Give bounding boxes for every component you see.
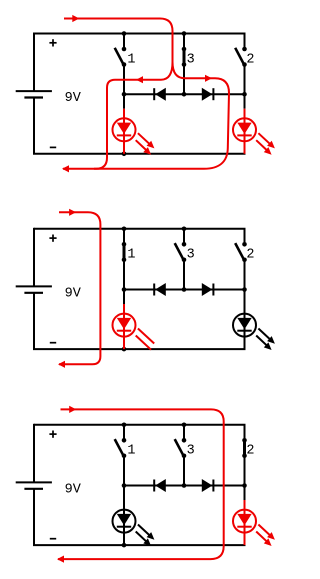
svg-text:1: 1 <box>127 444 135 459</box>
switch 2 top contact dot <box>242 47 247 52</box>
red current path: c1 right branch through D2 to right LED <box>94 62 229 169</box>
svg-text:2: 2 <box>246 52 254 67</box>
LED left LED circle <box>113 118 136 141</box>
wire: switch 1 to diode row <box>123 456 125 486</box>
wire: switch 1 to diode row <box>123 260 125 290</box>
red current path: c3 from + terminal through switch 2 and right LED back to - <box>58 409 224 559</box>
junction dot: bottom rail / left LED branch <box>122 152 127 157</box>
svg-text:1: 1 <box>127 248 135 263</box>
switch 3 top contact dot <box>182 47 187 52</box>
wire: switch 2 down to diode row junction <box>244 260 246 290</box>
wire: cathode lead of right LED from diode row <box>244 290 246 350</box>
label "+" battery positive <box>49 42 56 44</box>
wire: cathode lead of right LED from diode row <box>244 94 246 109</box>
junction dot: top rail / switch 1 branch <box>122 227 127 232</box>
wire: left edge upper (battery +) <box>33 228 35 287</box>
diode D1 (pointing left) <box>153 88 155 100</box>
red arrow: return current on bottom c2 <box>58 361 65 368</box>
red arrow: current direction on top rail c1 <box>72 15 79 22</box>
wire: left edge lower (battery -) <box>33 293 35 349</box>
junction dot: top rail / switch 1 branch <box>122 31 127 36</box>
diode D2 (pointing right) <box>212 88 214 100</box>
wire: cathode lead of right LED from diode row <box>244 486 246 501</box>
wire: diode row horizontal <box>124 93 245 95</box>
switch 1 bottom contact dot <box>122 258 127 263</box>
switch 1 top contact dot <box>122 47 127 52</box>
label "-" battery negative <box>50 146 56 148</box>
switch 3 bottom contact dot <box>182 454 187 459</box>
LED right LED light rays <box>258 133 269 144</box>
LED right LED cathode bar <box>237 526 251 528</box>
LED left LED cathode bar <box>117 134 131 136</box>
battery 9V positive plate <box>16 481 52 483</box>
wire: stub from top rail to switch 3 <box>183 229 185 245</box>
LED right LED triangle <box>237 318 251 329</box>
wire: stub from top rail to switch 2 <box>244 425 246 441</box>
wire: stub from top rail to switch 1 <box>123 425 125 441</box>
svg-text:9V: 9V <box>65 91 82 106</box>
junction dot: diode row / switch 3 branch <box>182 287 187 292</box>
red arrow: return current on bottom c3 <box>57 556 64 563</box>
LED left LED cathode bar <box>117 330 131 332</box>
LED left LED light rays <box>138 133 149 144</box>
svg-text:3: 3 <box>187 52 195 67</box>
red current path: c1 from + terminal down through switch 3, left through D1 to left LED, return to - terminal <box>63 19 173 169</box>
LED left LED triangle <box>117 318 131 329</box>
svg-text:3: 3 <box>187 444 195 459</box>
wire: top rail <box>34 424 246 426</box>
label "+" battery positive <box>49 433 56 435</box>
switch 1 bottom contact dot <box>122 454 127 459</box>
junction dot: bottom rail / left LED branch <box>122 543 127 548</box>
LED left LED circle <box>113 314 136 337</box>
switch 1 (closed) lever <box>123 244 126 259</box>
wire: switch 1 to diode row <box>123 65 125 95</box>
switch 3 bottom contact dot <box>182 258 187 263</box>
switch 3 (closed) lever <box>183 49 186 65</box>
battery 9V negative plate <box>24 96 43 98</box>
LED left LED cathode bar <box>117 526 131 528</box>
junction dot: diode row / left LED branch <box>122 92 127 97</box>
svg-text:2: 2 <box>246 444 254 459</box>
junction dot: diode row / switch 3 branch <box>182 483 187 488</box>
label "-" battery negative <box>50 342 56 344</box>
junction dot: diode row / right edge <box>242 92 247 97</box>
switch 3 top contact dot <box>182 438 187 443</box>
wire: switch 3 to diode row <box>183 65 185 95</box>
LED right LED circle <box>233 118 256 141</box>
red current path through right LED lead <box>244 500 246 545</box>
LED right LED cathode bar <box>237 134 251 136</box>
wire: stub from top rail to switch 3 <box>183 425 185 441</box>
wire: switch 3 to diode row <box>183 456 185 486</box>
svg-text:1: 1 <box>127 52 135 67</box>
wire: top rail <box>34 228 246 230</box>
LED right LED light rays <box>258 525 269 536</box>
red arrow: current direction on top rail c2 <box>69 209 76 216</box>
wire: top rail <box>34 33 246 35</box>
wire: cathode lead of left LED from diode row <box>123 94 125 109</box>
switch 2 bottom contact dot <box>242 62 247 67</box>
wire: left edge upper (battery +) <box>33 33 35 92</box>
switch 2 (open) lever <box>235 48 243 64</box>
LED left LED light rays <box>138 525 149 536</box>
junction dot: top rail / switch 3 branch <box>182 423 187 428</box>
switch 1 (open) lever <box>115 48 123 64</box>
junction dot: diode row / right edge <box>242 287 247 292</box>
junction dot: bottom rail / left LED branch <box>122 347 127 352</box>
wire: diode row horizontal <box>124 289 245 291</box>
wire: left edge lower (battery -) <box>33 489 35 545</box>
wire: cathode lead of left LED from diode row <box>123 290 125 305</box>
wire: bottom rail <box>33 348 246 350</box>
wire: cathode lead of left LED from diode row <box>123 486 125 546</box>
switch 1 top contact dot <box>122 438 127 443</box>
label "-" battery negative <box>50 538 56 540</box>
junction dot: top rail / switch 3 branch <box>182 227 187 232</box>
junction dot: diode row / left LED branch <box>122 483 127 488</box>
red current path: c2 from + terminal through switch 1 and left LED back to - <box>59 212 100 364</box>
switch 1 bottom contact dot <box>122 62 127 67</box>
red arrow: current toward left LED c1 <box>136 76 143 83</box>
battery 9V negative plate <box>24 292 43 294</box>
diode D1 (pointing left) <box>153 284 155 296</box>
LED left LED circle <box>113 510 136 533</box>
switch 3 top contact dot <box>182 242 187 247</box>
switch 3 bottom contact dot <box>182 62 187 67</box>
red arrow: return current on bottom c1 <box>62 165 69 172</box>
LED right LED triangle <box>237 514 251 525</box>
diode D2 (pointing right) <box>212 480 214 492</box>
switch 2 top contact dot <box>242 242 247 247</box>
wire: stub from top rail to switch 1 <box>123 34 125 50</box>
switch 3 (open) lever <box>175 439 183 455</box>
battery 9V negative plate <box>24 488 43 490</box>
wire: switch 2 down to diode row junction <box>244 456 246 486</box>
red current path through left LED lead <box>123 304 125 349</box>
switch 3 (open) lever <box>175 243 183 259</box>
label "+" battery positive <box>49 237 56 239</box>
switch 2 top contact dot <box>242 438 247 443</box>
switch 2 (closed) lever <box>243 440 246 456</box>
wire: bottom rail <box>33 153 246 155</box>
LED left LED triangle <box>117 514 131 525</box>
junction dot: top rail / switch 3 branch <box>182 31 187 36</box>
LED right LED light rays <box>258 329 269 340</box>
diode D2 (pointing right) <box>212 284 214 296</box>
LED right LED triangle <box>237 123 251 134</box>
switch 1 (open) lever <box>115 439 123 455</box>
red arrow: current direction on top rail c3 <box>69 406 76 413</box>
switch 2 bottom contact dot <box>242 454 247 459</box>
svg-text:9V: 9V <box>65 482 82 497</box>
wire: diode row horizontal <box>124 485 245 487</box>
junction dot: diode row / right edge <box>242 483 247 488</box>
svg-text:2: 2 <box>246 248 254 263</box>
LED right LED circle <box>233 314 256 337</box>
diode D1 (pointing left) <box>153 480 155 492</box>
wire: stub from top rail to switch 3 <box>183 34 185 50</box>
wire: stub from top rail to switch 1 <box>123 229 125 245</box>
wire: stub from top rail to switch 2 <box>244 229 246 245</box>
wire: switch 2 down to diode row junction <box>244 65 246 95</box>
svg-text:3: 3 <box>187 248 195 263</box>
LED left LED triangle <box>117 123 131 134</box>
LED right LED cathode bar <box>237 330 251 332</box>
junction dot: diode row / left LED branch <box>122 287 127 292</box>
wire: left edge upper (battery +) <box>33 424 35 483</box>
switch 1 top contact dot <box>122 242 127 247</box>
battery 9V positive plate <box>16 90 52 92</box>
red current path through right LED lead <box>244 109 246 154</box>
LED left LED light rays <box>138 329 154 344</box>
wire: stub from top rail to switch 2 <box>244 34 246 50</box>
red current path through left LED lead <box>123 109 125 154</box>
battery 9V positive plate <box>16 285 52 287</box>
switch 2 (open) lever <box>235 243 243 259</box>
wire: bottom rail <box>33 544 246 546</box>
red arrow: current toward right LED c1 <box>205 75 212 82</box>
svg-text:9V: 9V <box>65 286 82 301</box>
junction dot: diode row / switch 3 branch <box>182 92 187 97</box>
LED right LED circle <box>233 510 256 533</box>
switch 2 bottom contact dot <box>242 258 247 263</box>
junction dot: top rail / switch 1 branch <box>122 423 127 428</box>
wire: switch 3 to diode row <box>183 260 185 290</box>
wire: left edge lower (battery -) <box>33 98 35 154</box>
